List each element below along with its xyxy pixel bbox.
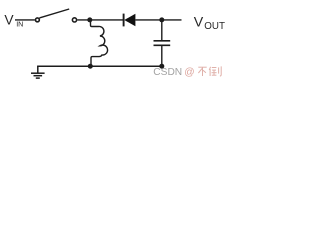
ground bar 3 [36,77,40,79]
capacitor C1 top plate [154,40,171,42]
capacitor C1 top lead [161,20,163,40]
svg-text:CSDN: CSDN [153,67,182,78]
svg-text:V: V [4,13,14,28]
inductor L1 [91,20,108,66]
diode D1 cathode bar [123,14,125,27]
capacitor C1 bottom plate [154,44,171,46]
node cap-bottom junction dot [159,64,164,69]
svg-text:OUT: OUT [204,21,225,32]
wire VIN to switch [15,19,35,21]
switch S1 lever [39,9,69,18]
switch S1 throw terminal [72,18,76,22]
node inductor-bottom junction dot [88,64,93,69]
svg-text:@: @ [184,67,194,78]
svg-text:V: V [194,15,204,31]
watermark hanzi bu [198,67,206,76]
wire switch to diode [77,19,123,21]
watermark hanzi dao [209,66,221,76]
diode D1 triangle [124,14,135,26]
node B junction dot (cap top) [159,17,164,22]
node VOUT label [194,15,225,32]
node VIN label [4,13,23,29]
wire diode to VOUT [135,19,181,21]
ground bar 2 [34,75,43,77]
switch S1 pole terminal [35,18,39,22]
capacitor C1 bottom lead [161,46,163,66]
ground stem [37,66,39,72]
svg-text:IN: IN [16,20,23,29]
ground bar 1 [31,72,45,74]
node A junction dot [87,17,92,22]
wire bottom rail [37,65,163,67]
